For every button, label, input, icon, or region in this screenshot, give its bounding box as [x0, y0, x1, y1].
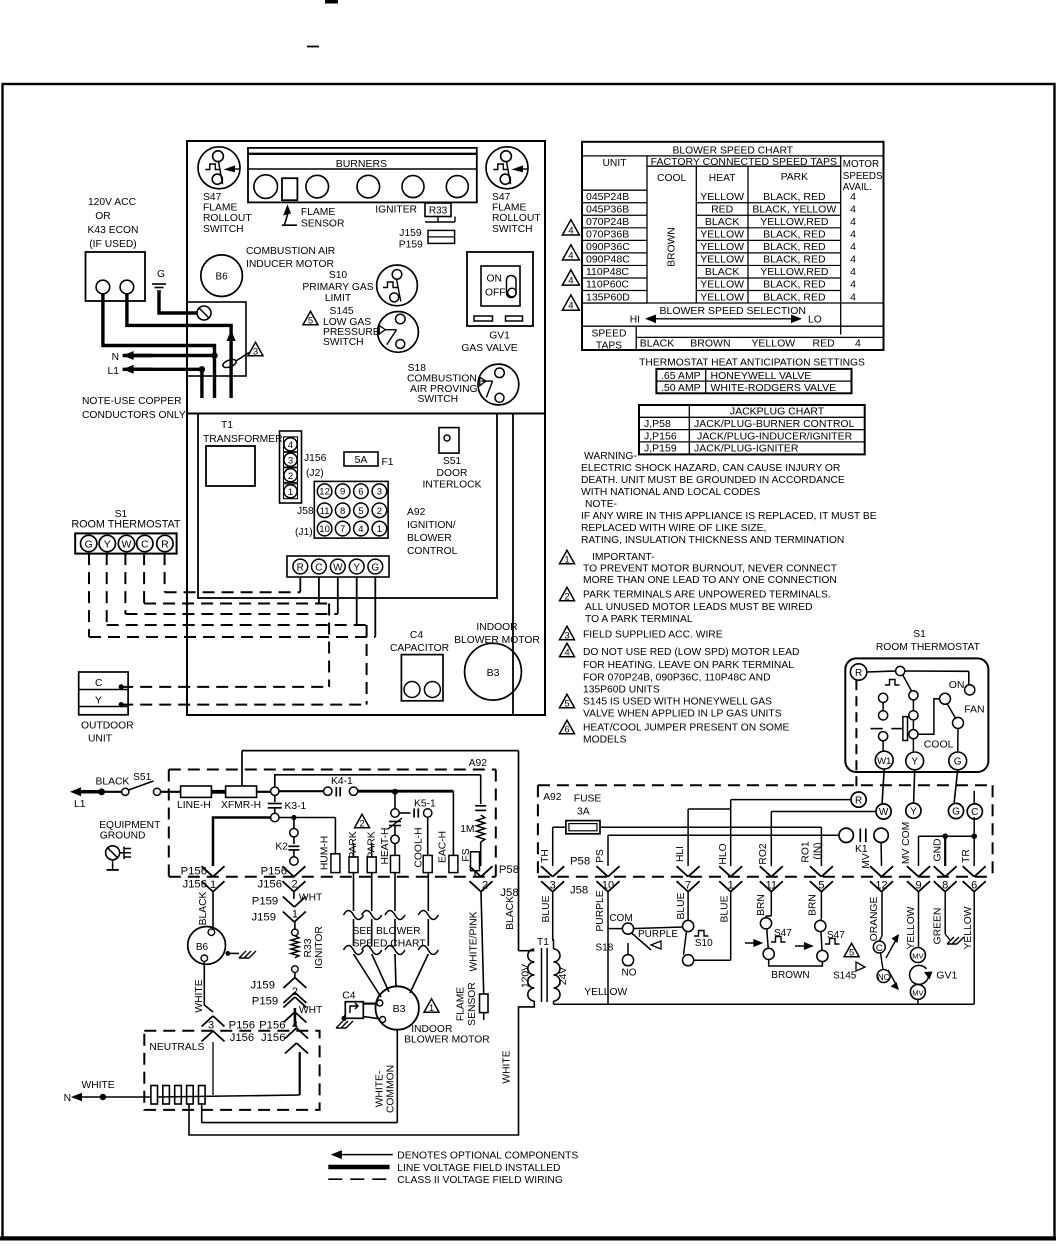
svg-text:MOTOR: MOTOR: [843, 159, 879, 170]
svg-text:TAPS: TAPS: [596, 341, 622, 352]
svg-text:NOTE-USE COPPER: NOTE-USE COPPER: [82, 396, 182, 407]
svg-text:4: 4: [564, 647, 569, 658]
svg-text:WARNING-: WARNING-: [584, 451, 637, 462]
svg-text:VALVE WHEN APPLIED IN LP GAS U: VALVE WHEN APPLIED IN LP GAS UNITS: [583, 709, 782, 720]
svg-text:P156: P156: [261, 866, 287, 878]
svg-text:5: 5: [849, 947, 854, 958]
svg-text:W: W: [333, 562, 343, 573]
svg-text:LINE-H: LINE-H: [177, 800, 211, 811]
svg-text:TH: TH: [540, 849, 551, 863]
svg-text:4: 4: [850, 291, 856, 303]
svg-text:(J2): (J2): [306, 468, 324, 479]
svg-text:(IN): (IN): [812, 842, 823, 859]
svg-text:120V ACC: 120V ACC: [88, 197, 137, 208]
svg-text:J156: J156: [304, 453, 327, 464]
svg-text:YELLOW,RED: YELLOW,RED: [760, 216, 829, 228]
svg-text:ON: ON: [487, 274, 502, 285]
svg-text:YELLOW: YELLOW: [751, 338, 795, 350]
svg-text:7: 7: [340, 524, 345, 535]
svg-text:GND: GND: [933, 839, 944, 862]
svg-text:JACK/PLUG-BURNER CONTROL: JACK/PLUG-BURNER CONTROL: [694, 418, 855, 430]
svg-text:110P48C: 110P48C: [586, 266, 629, 278]
svg-text:P58: P58: [570, 856, 590, 868]
svg-text:A92: A92: [407, 507, 426, 518]
svg-text:4: 4: [568, 225, 573, 236]
svg-text:S47: S47: [203, 192, 222, 203]
svg-text:P156: P156: [181, 866, 207, 878]
svg-text:3A: 3A: [577, 807, 590, 818]
svg-text:4: 4: [850, 279, 856, 291]
svg-text:C4: C4: [342, 991, 355, 1002]
svg-text:ROOM THERMOSTAT: ROOM THERMOSTAT: [71, 519, 181, 531]
svg-text:RED: RED: [813, 338, 836, 350]
svg-text:4: 4: [850, 254, 856, 266]
svg-text:OFF: OFF: [485, 288, 506, 299]
svg-text:S145: S145: [833, 971, 857, 982]
svg-text:DEATH. UNIT MUST BE GROUNDED I: DEATH. UNIT MUST BE GROUNDED IN ACCORDAN…: [581, 475, 845, 486]
svg-text:DENOTES OPTIONAL COMPONENTS: DENOTES OPTIONAL COMPONENTS: [397, 1151, 578, 1162]
svg-text:MV COM: MV COM: [901, 822, 912, 864]
svg-text:J156: J156: [261, 1032, 286, 1044]
svg-text:.50 AMP: .50 AMP: [661, 382, 701, 394]
svg-text:BLUE: BLUE: [676, 892, 687, 919]
svg-text:110P60C: 110P60C: [586, 279, 629, 291]
svg-text:S18: S18: [596, 943, 614, 954]
svg-text:FLAME: FLAME: [456, 987, 467, 1021]
svg-text:ALL UNUSED MOTOR LEADS MUST BE: ALL UNUSED MOTOR LEADS MUST BE WIRED: [585, 602, 813, 613]
svg-text:J159: J159: [399, 228, 422, 239]
svg-text:SENSOR: SENSOR: [467, 982, 478, 1026]
svg-text:SWITCH: SWITCH: [203, 224, 244, 235]
svg-text:J159: J159: [252, 912, 277, 924]
svg-text:R: R: [855, 795, 862, 806]
svg-text:PARK TERMINALS ARE UNPOWERED T: PARK TERMINALS ARE UNPOWERED TERMINALS.: [583, 590, 831, 601]
svg-text:J,P58: J,P58: [644, 418, 671, 430]
svg-text:4: 4: [850, 266, 856, 278]
svg-text:GROUND: GROUND: [100, 831, 146, 842]
svg-text:YELLOW: YELLOW: [700, 191, 744, 203]
svg-text:UNIT: UNIT: [88, 734, 113, 745]
svg-text:Y: Y: [95, 696, 102, 707]
svg-text:BLACK, RED: BLACK, RED: [763, 229, 826, 241]
svg-text:G: G: [85, 539, 93, 551]
svg-text:ROOM THERMOSTAT: ROOM THERMOSTAT: [876, 642, 981, 653]
svg-text:S51: S51: [443, 456, 462, 467]
svg-text:ROLLOUT: ROLLOUT: [492, 213, 541, 224]
svg-text:WHT: WHT: [299, 893, 323, 904]
svg-text:P58: P58: [499, 864, 519, 876]
svg-text:BURNERS: BURNERS: [336, 158, 387, 170]
svg-text:5: 5: [358, 506, 363, 517]
svg-text:FS: FS: [461, 848, 472, 861]
svg-text:J156: J156: [230, 1032, 255, 1044]
svg-text:FOR HEATING. LEAVE ON PARK TER: FOR HEATING. LEAVE ON PARK TERMINAL: [583, 660, 794, 671]
svg-text:HONEYWELL VALVE: HONEYWELL VALVE: [711, 370, 812, 382]
svg-text:070P24B: 070P24B: [586, 216, 629, 228]
svg-text:CAPACITOR: CAPACITOR: [390, 643, 449, 654]
svg-text:YELLOW: YELLOW: [700, 279, 744, 291]
svg-text:WHITE-RODGERS VALVE: WHITE-RODGERS VALVE: [711, 382, 837, 394]
svg-text:SWITCH: SWITCH: [418, 394, 459, 405]
svg-text:K4-1: K4-1: [331, 776, 353, 787]
svg-text:RATING, INSULATION THICKNESS A: RATING, INSULATION THICKNESS AND TERMINA…: [581, 535, 844, 546]
svg-text:TO PREVENT MOTOR BURNOUT, NEVE: TO PREVENT MOTOR BURNOUT, NEVER CONNECT: [583, 564, 838, 575]
svg-text:MORE THAN ONE LEAD TO ANY ONE: MORE THAN ONE LEAD TO ANY ONE CONNECTION: [583, 575, 837, 586]
svg-text:CONDUCTORS ONLY: CONDUCTORS ONLY: [82, 410, 186, 421]
svg-text:PRIMARY GAS: PRIMARY GAS: [302, 282, 373, 293]
svg-text:4: 4: [850, 191, 856, 203]
svg-text:11: 11: [766, 880, 777, 892]
svg-text:S51: S51: [133, 772, 152, 783]
svg-text:BLACK: BLACK: [705, 216, 739, 228]
svg-text:LINE VOLTAGE FIELD INSTALLED: LINE VOLTAGE FIELD INSTALLED: [397, 1163, 560, 1174]
svg-text:24V: 24V: [558, 967, 569, 985]
svg-text:9: 9: [915, 880, 921, 892]
svg-text:K2: K2: [275, 842, 288, 853]
svg-text:4: 4: [850, 203, 856, 215]
svg-text:7: 7: [685, 880, 691, 892]
svg-text:YELLOW: YELLOW: [906, 906, 917, 949]
svg-text:T1: T1: [221, 420, 233, 431]
svg-text:GAS VALVE: GAS VALVE: [461, 343, 517, 354]
svg-text:J,P159: J,P159: [644, 443, 677, 455]
svg-text:P159: P159: [252, 896, 278, 908]
svg-text:UNIT: UNIT: [602, 158, 627, 169]
svg-text:HUM-H: HUM-H: [320, 836, 331, 870]
svg-text:J58: J58: [570, 885, 588, 897]
svg-text:FIELD SUPPLIED ACC. WIRE: FIELD SUPPLIED ACC. WIRE: [583, 630, 723, 641]
svg-text:RO1: RO1: [800, 841, 811, 862]
svg-text:BLACK: BLACK: [96, 777, 130, 788]
svg-text:6: 6: [564, 724, 569, 735]
svg-text:SPEEDS: SPEEDS: [843, 171, 883, 182]
svg-text:10: 10: [319, 524, 330, 535]
svg-text:HEAT: HEAT: [709, 173, 736, 184]
svg-text:COMBUSTION AIR: COMBUSTION AIR: [246, 246, 335, 257]
svg-text:135P60D UNITS: 135P60D UNITS: [583, 685, 660, 696]
svg-text:135P60D: 135P60D: [586, 291, 630, 303]
svg-text:S145: S145: [330, 306, 354, 317]
svg-text:2: 2: [292, 986, 298, 998]
svg-text:W1: W1: [877, 756, 891, 767]
svg-text:BLACK, RED: BLACK, RED: [763, 279, 826, 291]
svg-text:HEAT-H: HEAT-H: [380, 828, 391, 865]
svg-text:5: 5: [818, 880, 824, 892]
svg-text:R: R: [855, 668, 862, 679]
svg-text:GV1: GV1: [489, 331, 510, 342]
svg-text:R33: R33: [303, 938, 314, 957]
svg-text:BLUE: BLUE: [720, 895, 731, 922]
svg-text:ROLLOUT: ROLLOUT: [203, 213, 252, 224]
svg-text:TR: TR: [961, 849, 972, 863]
svg-text:SWITCH: SWITCH: [492, 224, 533, 235]
svg-text:GREEN: GREEN: [933, 908, 944, 945]
svg-text:C: C: [315, 562, 322, 573]
svg-text:(IF USED): (IF USED): [89, 239, 136, 250]
svg-text:A92: A92: [469, 758, 488, 769]
svg-text:L1: L1: [108, 366, 120, 377]
svg-text:S47: S47: [492, 192, 511, 203]
svg-text:2: 2: [359, 818, 364, 829]
svg-text:C: C: [141, 539, 149, 551]
svg-text:3: 3: [550, 880, 556, 892]
svg-text:.65 AMP: .65 AMP: [661, 370, 701, 382]
svg-text:MV: MV: [912, 952, 923, 961]
svg-text:4: 4: [358, 524, 363, 535]
svg-text:WHITE: WHITE: [82, 1080, 115, 1091]
svg-text:BLOWER: BLOWER: [407, 533, 452, 544]
svg-text:1: 1: [564, 554, 569, 565]
svg-text:8: 8: [942, 880, 948, 892]
svg-text:WHITE-: WHITE-: [375, 1071, 386, 1108]
svg-text:ELECTRIC SHOCK HAZARD, CAN CAU: ELECTRIC SHOCK HAZARD, CAN CAUSE INJURY …: [581, 463, 840, 474]
svg-text:C: C: [876, 943, 883, 954]
svg-text:IGNITOR: IGNITOR: [314, 926, 325, 969]
svg-text:K5-1: K5-1: [414, 799, 436, 810]
svg-text:6: 6: [971, 880, 977, 892]
svg-text:AVAIL.: AVAIL.: [843, 182, 872, 193]
svg-text:B3: B3: [393, 1003, 406, 1015]
svg-text:BLACK, YELLOW: BLACK, YELLOW: [752, 203, 836, 215]
svg-text:Y: Y: [911, 757, 918, 768]
svg-text:S145 IS USED WITH HONEYWELL GA: S145 IS USED WITH HONEYWELL GAS: [583, 697, 772, 708]
svg-text:HLI: HLI: [675, 846, 686, 862]
svg-text:TRANSFORMER: TRANSFORMER: [203, 434, 283, 445]
svg-text:YELLOW: YELLOW: [700, 291, 744, 303]
svg-text:WHITE/PINK: WHITE/PINK: [469, 911, 480, 971]
svg-text:S47: S47: [827, 930, 845, 941]
svg-text:BROWN: BROWN: [666, 227, 677, 266]
svg-text:FLAME: FLAME: [301, 207, 335, 218]
svg-text:YELLOW,RED: YELLOW,RED: [760, 266, 829, 278]
svg-text:J156: J156: [258, 879, 283, 891]
svg-text:045P24B: 045P24B: [586, 191, 629, 203]
svg-text:MODELS: MODELS: [583, 735, 627, 746]
svg-text:12: 12: [875, 880, 887, 892]
svg-text:WITH NATIONAL AND LOCAL CODES: WITH NATIONAL AND LOCAL CODES: [581, 487, 760, 498]
svg-text:4: 4: [850, 216, 856, 228]
svg-text:3: 3: [288, 455, 293, 466]
svg-text:3: 3: [377, 487, 382, 498]
svg-text:FAN: FAN: [964, 703, 984, 715]
svg-text:FLAME: FLAME: [492, 203, 526, 214]
svg-text:4: 4: [855, 338, 861, 350]
svg-text:3: 3: [253, 346, 258, 357]
svg-text:A92: A92: [543, 792, 562, 803]
svg-text:J,P156: J,P156: [644, 430, 677, 442]
svg-text:BLACK: BLACK: [640, 338, 674, 350]
svg-text:BLOWER MOTOR: BLOWER MOTOR: [404, 1035, 490, 1046]
svg-text:COOL: COOL: [924, 738, 954, 750]
svg-text:J58: J58: [297, 506, 314, 517]
svg-text:4: 4: [568, 276, 573, 287]
svg-text:BLACK, RED: BLACK, RED: [763, 291, 826, 303]
svg-text:WHT: WHT: [299, 1005, 323, 1016]
svg-text:JACKPLUG CHART: JACKPLUG CHART: [730, 406, 825, 418]
svg-text:PS: PS: [595, 849, 606, 863]
svg-text:G: G: [157, 269, 165, 280]
svg-text:SEE BLOWER: SEE BLOWER: [353, 926, 421, 937]
svg-text:F1: F1: [382, 457, 394, 468]
svg-text:YELLOW: YELLOW: [700, 254, 744, 266]
svg-text:JACK/PLUG-INDUCER/IGNITER: JACK/PLUG-INDUCER/IGNITER: [697, 430, 853, 442]
svg-text:BLACK, RED: BLACK, RED: [763, 191, 826, 203]
svg-text:FOR 070P24B, 090P36C, 110P48C: FOR 070P24B, 090P36C, 110P48C AND: [583, 673, 771, 684]
svg-text:K43 ECON: K43 ECON: [88, 225, 139, 236]
svg-text:W: W: [122, 539, 132, 551]
svg-text:XFMR-H: XFMR-H: [221, 800, 261, 811]
svg-text:PARK: PARK: [781, 172, 808, 183]
svg-text:G: G: [371, 562, 379, 573]
svg-text:11: 11: [320, 506, 330, 517]
svg-text:B6: B6: [196, 942, 209, 953]
svg-text:C: C: [95, 678, 103, 689]
svg-text:090P36C: 090P36C: [586, 241, 630, 253]
svg-text:J156: J156: [183, 879, 208, 891]
svg-text:YELLOW: YELLOW: [584, 987, 627, 998]
svg-text:4: 4: [288, 440, 293, 451]
svg-text:IGNITER: IGNITER: [375, 205, 417, 216]
svg-text:SENSOR: SENSOR: [301, 219, 345, 230]
svg-text:BROWN: BROWN: [690, 338, 730, 350]
svg-text:8: 8: [340, 506, 345, 517]
svg-text:RED: RED: [711, 203, 734, 215]
svg-text:T1: T1: [537, 937, 549, 948]
svg-text:4: 4: [850, 241, 856, 253]
svg-text:MV: MV: [861, 853, 872, 869]
svg-text:4: 4: [850, 229, 856, 241]
svg-text:OUTDOOR: OUTDOOR: [81, 721, 134, 732]
svg-text:BRN: BRN: [808, 894, 819, 916]
svg-text:4: 4: [568, 301, 573, 312]
svg-text:BLACK, RED: BLACK, RED: [763, 241, 826, 253]
svg-text:C4: C4: [410, 630, 423, 641]
svg-text:INDOOR: INDOOR: [476, 622, 517, 633]
svg-text:REPLACED WITH WIRE OF LIKE SIZ: REPLACED WITH WIRE OF LIKE SIZE,: [581, 523, 766, 534]
svg-text:S47: S47: [774, 928, 792, 939]
svg-text:1: 1: [210, 879, 216, 891]
svg-text:S1: S1: [913, 629, 926, 640]
svg-text:YELLOW: YELLOW: [700, 229, 744, 241]
svg-text:Y: Y: [910, 806, 917, 817]
svg-text:5: 5: [564, 698, 569, 709]
svg-text:R: R: [161, 539, 169, 551]
svg-text:IMPORTANT-: IMPORTANT-: [592, 552, 655, 563]
svg-text:MV: MV: [912, 988, 923, 997]
svg-text:COMMON: COMMON: [386, 1065, 397, 1113]
svg-text:Y: Y: [353, 562, 360, 573]
svg-text:NEUTRALS: NEUTRALS: [149, 1042, 204, 1053]
svg-text:S10: S10: [329, 270, 348, 281]
svg-text:R33: R33: [429, 206, 448, 217]
svg-text:B6: B6: [215, 271, 228, 282]
svg-text:FUSE: FUSE: [574, 794, 602, 805]
svg-text:1: 1: [377, 524, 382, 535]
svg-text:EQUIPMENT: EQUIPMENT: [99, 820, 161, 831]
svg-text:10: 10: [602, 880, 614, 892]
svg-text:DOOR: DOOR: [437, 468, 468, 479]
svg-text:COM: COM: [609, 913, 632, 924]
svg-text:CLASS II VOLTAGE FIELD WIRING: CLASS II VOLTAGE FIELD WIRING: [397, 1175, 563, 1186]
svg-text:BRN: BRN: [756, 894, 767, 916]
svg-text:Y: Y: [104, 539, 111, 551]
svg-text:R: R: [297, 562, 304, 573]
svg-text:COOL-H: COOL-H: [414, 827, 425, 867]
svg-text:BLACK: BLACK: [198, 891, 209, 925]
svg-text:2: 2: [377, 506, 382, 517]
svg-text:BROWN: BROWN: [771, 970, 809, 981]
svg-text:NO: NO: [622, 968, 637, 979]
svg-text:L1: L1: [74, 799, 86, 810]
svg-text:(J1): (J1): [295, 527, 313, 538]
svg-text:COOL: COOL: [657, 173, 686, 184]
svg-text:2: 2: [482, 880, 488, 892]
svg-text:WHITE: WHITE: [502, 1050, 513, 1083]
svg-text:BLACK, RED: BLACK, RED: [763, 254, 826, 266]
svg-text:PURPLE: PURPLE: [638, 929, 678, 940]
svg-text:J159: J159: [251, 980, 276, 992]
svg-text:COMBUSTION: COMBUSTION: [407, 374, 477, 385]
svg-text:GV1: GV1: [936, 970, 957, 982]
svg-text:HI: HI: [630, 315, 640, 326]
svg-text:IGNITION/: IGNITION/: [407, 520, 456, 531]
svg-text:ORANGE: ORANGE: [869, 897, 880, 942]
svg-text:LIMIT: LIMIT: [325, 293, 352, 304]
svg-text:5A: 5A: [355, 454, 368, 466]
svg-text:HEAT/COOL JUMPER PRESENT ON SO: HEAT/COOL JUMPER PRESENT ON SOME: [583, 723, 789, 734]
svg-text:2: 2: [564, 591, 569, 602]
svg-text:1: 1: [288, 487, 293, 498]
svg-text:ON: ON: [949, 679, 965, 691]
svg-text:BLACK: BLACK: [505, 896, 516, 930]
svg-text:C: C: [971, 807, 978, 818]
svg-text:1M: 1M: [460, 824, 474, 835]
svg-text:CONTROL: CONTROL: [407, 546, 458, 557]
svg-text:BLACK: BLACK: [705, 266, 739, 278]
svg-text:045P36B: 045P36B: [586, 203, 629, 215]
svg-text:S18: S18: [408, 363, 427, 374]
svg-text:NOTE-: NOTE-: [585, 499, 617, 510]
svg-text:INTERLOCK: INTERLOCK: [423, 480, 482, 491]
svg-text:OR: OR: [95, 211, 110, 222]
svg-text:YELLOW: YELLOW: [700, 241, 744, 253]
svg-text:1: 1: [728, 880, 734, 892]
svg-text:HLO: HLO: [718, 843, 729, 864]
svg-text:SPEED: SPEED: [592, 329, 627, 340]
svg-text:2: 2: [291, 879, 297, 891]
svg-text:P159: P159: [252, 996, 278, 1008]
svg-text:5: 5: [308, 315, 313, 326]
svg-text:YELLOW: YELLOW: [963, 906, 974, 949]
svg-text:6: 6: [358, 487, 363, 498]
svg-text:G: G: [954, 757, 962, 768]
svg-text:IF ANY WIRE IN THIS APPLIANCE: IF ANY WIRE IN THIS APPLIANCE IS REPLACE…: [581, 511, 877, 522]
svg-text:3: 3: [564, 630, 569, 641]
svg-text:1: 1: [429, 1003, 434, 1014]
svg-text:INDUCER MOTOR: INDUCER MOTOR: [246, 259, 334, 270]
svg-text:1: 1: [292, 909, 298, 921]
svg-text:BLOWER SPEED SELECTION: BLOWER SPEED SELECTION: [660, 305, 806, 317]
svg-text:N: N: [112, 352, 119, 363]
svg-text:FLAME: FLAME: [203, 203, 237, 214]
svg-text:NC: NC: [878, 973, 890, 982]
svg-text:SWITCH: SWITCH: [323, 337, 364, 348]
svg-text:EAC-H: EAC-H: [438, 831, 449, 863]
svg-text:B3: B3: [487, 667, 500, 679]
svg-text:120V: 120V: [521, 964, 532, 988]
svg-text:070P36B: 070P36B: [586, 229, 629, 241]
svg-text:PURPLE: PURPLE: [595, 890, 606, 931]
